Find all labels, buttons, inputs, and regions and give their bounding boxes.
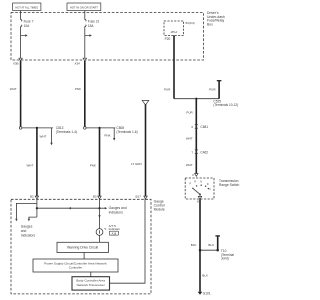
label HOT AT ALL TIMES: [13, 3, 41, 11]
svg-text:Fuse 7: Fuse 7: [24, 19, 34, 23]
connector C681: [191, 124, 208, 129]
wire WHT from fuse 7: [10, 61, 21, 127]
svg-text:15A: 15A: [88, 24, 95, 28]
label A/T'S Indicator: [109, 224, 121, 235]
svg-text:PNK: PNK: [90, 163, 96, 167]
connector X3B: [13, 58, 22, 65]
svg-text:B17: B17: [136, 195, 142, 199]
svg-text:WHT: WHT: [186, 163, 193, 167]
terminal joint T10: [199, 249, 234, 261]
arrow on fuse 21 wire: [85, 34, 92, 36]
svg-text:Controller: Controller: [69, 265, 82, 269]
internal wire transceiver to B17: [110, 199, 146, 283]
transmission range switch box (dashed): [185, 178, 239, 199]
svg-text:Indicators: Indicators: [109, 210, 124, 214]
svg-text:Network Transceiver: Network Transceiver: [77, 283, 105, 287]
wire LT GRN to B17: [131, 104, 146, 196]
svg-text:P20: P20: [165, 37, 171, 41]
terminal B2: [30, 195, 39, 199]
svg-text:PUR: PUR: [209, 88, 216, 92]
ground G101: [198, 292, 211, 296]
connector C525: [174, 81, 238, 108]
svg-text:Gauges: Gauges: [21, 224, 33, 228]
svg-text:Gauges and: Gauges and: [109, 206, 127, 210]
wire warning to power supply: [83, 253, 85, 260]
terminal 8 (switch output): [197, 196, 202, 203]
wire PUR to transmission range switch: [186, 99, 196, 174]
svg-text:B2: B2: [30, 195, 34, 199]
svg-text:Range Switch: Range Switch: [219, 183, 240, 187]
svg-text:Indicator: Indicator: [109, 227, 121, 231]
svg-text:84(C4): 84(C4): [186, 21, 195, 25]
svg-text:B3: B3: [93, 195, 97, 199]
svg-text:Warning Drive Circuit: Warning Drive Circuit: [67, 246, 98, 250]
wire BLK switch to T10: [191, 199, 200, 250]
connector X34: [74, 58, 86, 65]
wire WHT C813 to B2: [26, 128, 36, 196]
wire BLK T10 to ground: [200, 250, 208, 292]
svg-text:(Terminals 1-6): (Terminals 1-6): [116, 130, 137, 134]
svg-text:(Terminals 1-4): (Terminals 1-4): [56, 130, 77, 134]
svg-text:Indicators: Indicators: [21, 234, 36, 238]
wire lamp to warning drive circuit: [99, 235, 101, 242]
svg-text:PUR: PUR: [164, 88, 171, 92]
svg-text:C681: C681: [200, 125, 208, 129]
box Body Controller Area Network Transceiver: [72, 277, 110, 290]
internal bus wire B2 to B3: [37, 207, 101, 209]
fuse F7: [21, 11, 34, 59]
wire PUR from P20: [164, 35, 174, 98]
svg-text:Module: Module: [154, 207, 165, 211]
gauge control module box (dashed): [11, 199, 151, 294]
svg-text:X3B: X3B: [13, 62, 19, 66]
indicator lamp (A/T'S indicator): [96, 227, 107, 236]
wire power supply to transceiver: [90, 272, 92, 277]
terminal 3: [192, 173, 198, 177]
svg-text:and: and: [21, 229, 27, 233]
label Driver's Under-dash Fuse/Relay Box: [207, 11, 225, 26]
terminal B3: [93, 195, 101, 199]
svg-text:WHT: WHT: [40, 134, 47, 138]
wire PNK from fuse 21: [75, 61, 85, 127]
svg-text:BLK: BLK: [208, 243, 214, 247]
BLK branch stub at T10: [208, 236, 220, 250]
branch to Gauges and Indicators (right): [100, 206, 127, 215]
svg-text:X34: X34: [74, 62, 80, 66]
svg-text:J/P1A: J/P1A: [170, 31, 177, 34]
svg-text:*1: *1: [104, 227, 107, 231]
wire PNK C808 to B3: [90, 128, 100, 196]
svg-text:Joint): Joint): [221, 257, 229, 261]
terminal B17: [136, 195, 148, 199]
connector C462: [191, 150, 208, 155]
arrow on fuse 7 wire: [21, 34, 28, 36]
internal wire from B2: [15, 199, 38, 221]
label HOT IN ON OR START: [67, 3, 101, 11]
svg-text:HOT IN ON OR START: HOT IN ON OR START: [70, 6, 98, 10]
svg-text:Fuse 21: Fuse 21: [88, 19, 100, 23]
svg-text:A18: A18: [112, 232, 117, 235]
svg-text:(Terminals 10-12): (Terminals 10-12): [213, 103, 238, 107]
svg-text:G101: G101: [203, 292, 211, 296]
fuse/relay box (dashed enclosure): [11, 13, 204, 61]
connector C813: [19, 126, 77, 145]
connector C808: [84, 126, 138, 140]
svg-text:10A: 10A: [24, 24, 31, 28]
svg-text:Box: Box: [207, 22, 213, 26]
switch S1 (rotary contacts): [190, 181, 212, 196]
internal wire from B3 to indicator: [98, 199, 100, 229]
svg-text:WHT: WHT: [10, 87, 17, 91]
svg-text:HOT AT ALL TIMES: HOT AT ALL TIMES: [15, 6, 38, 10]
svg-text:PNK: PNK: [104, 133, 110, 137]
svg-text:PNK: PNK: [75, 87, 81, 91]
label Gauges and Indicators (left): [21, 224, 36, 237]
svg-text:C462: C462: [200, 150, 208, 154]
svg-text:LT GRN: LT GRN: [131, 162, 142, 166]
svg-text:BLK: BLK: [191, 243, 197, 247]
label Gauge Control Module: [154, 200, 165, 212]
fuse F21: [85, 11, 100, 59]
sub-box P20 (dashed): [164, 21, 184, 35]
connector fork at top of LT GRN wire: [142, 100, 149, 105]
box Warning Drive Circuit: [57, 242, 108, 252]
svg-text:BLK: BLK: [202, 273, 208, 277]
svg-text:WHT: WHT: [26, 163, 33, 167]
box Power Supply Circuit/Controller Area Network Controller: [33, 259, 118, 272]
svg-text:PUR: PUR: [186, 111, 193, 115]
svg-text:WHT: WHT: [186, 137, 193, 141]
